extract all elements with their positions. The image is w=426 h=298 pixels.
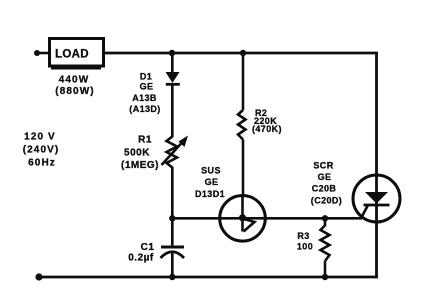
wire C1 to bottom rail xyxy=(171,253,174,277)
terminal dot bottom-left xyxy=(35,273,42,280)
wire R2 branch xyxy=(242,53,245,110)
svg-text:GE: GE xyxy=(140,82,154,92)
svg-text:(470K): (470K) xyxy=(252,124,282,134)
SUS triangle xyxy=(244,219,255,232)
svg-text:D1: D1 xyxy=(140,72,152,82)
junction node C1 bottom xyxy=(169,274,175,280)
svg-text:LOAD: LOAD xyxy=(55,49,89,61)
junction node top of D1 branch xyxy=(169,50,175,56)
SCR gate line xyxy=(361,205,368,218)
svg-text:GE: GE xyxy=(205,177,219,187)
wire top rail xyxy=(104,52,378,55)
wire D1 to R1 xyxy=(171,84,174,137)
svg-text:SUS: SUS xyxy=(201,166,221,176)
svg-text:500K: 500K xyxy=(124,148,150,159)
terminal dot top-left xyxy=(34,50,40,56)
junction node top of R2 branch xyxy=(240,50,246,56)
SUS inner anode line xyxy=(241,196,244,232)
wire R2 to SUS xyxy=(242,140,245,198)
svg-text:60Hz: 60Hz xyxy=(28,158,56,169)
wire R1 to mid junction xyxy=(171,167,174,247)
wire R3 top xyxy=(324,218,327,226)
rheostat R1 arrow xyxy=(162,136,189,166)
svg-text:(A13D): (A13D) xyxy=(129,104,160,114)
svg-text:SCR: SCR xyxy=(313,161,333,171)
wire right rail xyxy=(375,53,378,277)
svg-text:C1: C1 xyxy=(141,242,155,253)
svg-text:(240V): (240V) xyxy=(23,145,60,156)
rheostat R1 zigzag xyxy=(167,137,178,168)
wire D1 branch xyxy=(171,53,174,73)
svg-text:D13D1: D13D1 xyxy=(195,189,225,199)
wire mid rail xyxy=(172,217,362,220)
bottom rail xyxy=(39,276,378,279)
capacitor C1 xyxy=(161,247,185,258)
SCR circle xyxy=(353,175,400,222)
resistor R3 zigzag xyxy=(321,226,330,262)
svg-text:C20B: C20B xyxy=(312,184,337,194)
svg-text:GE: GE xyxy=(318,172,332,182)
svg-text:A13B: A13B xyxy=(132,93,157,103)
svg-text:(C20D): (C20D) xyxy=(311,196,342,206)
resistor R2 zigzag xyxy=(238,110,246,140)
junction node R3 bottom xyxy=(322,274,328,280)
svg-text:440W: 440W xyxy=(59,75,90,86)
SCR cathode bar xyxy=(364,204,390,207)
SCR triangle xyxy=(365,192,388,204)
svg-text:120 V: 120 V xyxy=(24,132,56,143)
junction node R3 top xyxy=(322,215,328,221)
svg-text:100: 100 xyxy=(297,242,313,252)
diode D1 xyxy=(166,72,180,84)
svg-text:0.2µf: 0.2µf xyxy=(128,253,154,264)
SUS center node xyxy=(239,214,246,221)
load box L1 xyxy=(50,39,104,69)
svg-text:(880W): (880W) xyxy=(55,86,94,97)
SUS circle xyxy=(220,196,266,242)
svg-text:R1: R1 xyxy=(138,135,152,146)
wire R3 bottom xyxy=(324,261,327,277)
svg-text:R3: R3 xyxy=(297,231,309,241)
wire terminal to load box xyxy=(37,52,49,55)
svg-text:(1MEG): (1MEG) xyxy=(121,160,159,171)
junction node mid left xyxy=(169,215,175,221)
